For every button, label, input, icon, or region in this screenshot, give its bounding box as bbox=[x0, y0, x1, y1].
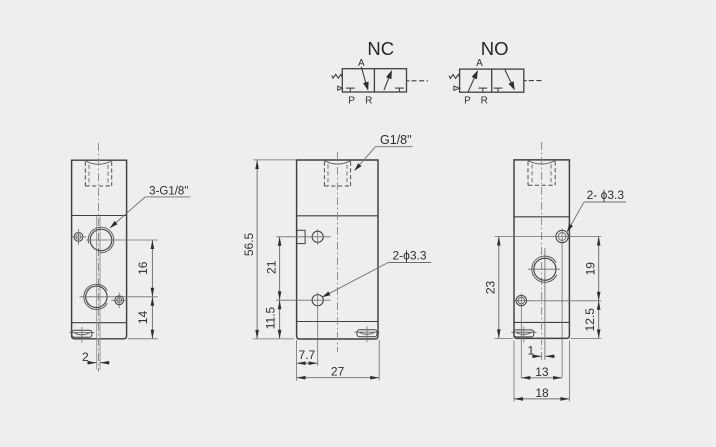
left view top section divider bbox=[72, 215, 127, 217]
dimension 1 arrows bbox=[532, 355, 542, 357]
svg-text:1: 1 bbox=[528, 343, 535, 357]
svg-text:23: 23 bbox=[484, 281, 498, 295]
svg-text:R: R bbox=[365, 95, 372, 106]
right view hole droplines for dim 13 bbox=[520, 308, 522, 378]
middle view body outline bbox=[297, 160, 378, 339]
left view bottom plate divider bbox=[72, 322, 127, 324]
svg-text:3-G1/8": 3-G1/8" bbox=[149, 185, 188, 197]
svg-text:P: P bbox=[464, 95, 471, 106]
left view port P center extension line bbox=[80, 296, 158, 298]
middle view upper mounting hole bbox=[312, 231, 323, 242]
left view mounting hole bottom bbox=[115, 296, 124, 305]
right view port R circle bbox=[534, 258, 556, 280]
right view threaded top port hidden lines bbox=[528, 161, 555, 164]
NO blocked port P symbol right cell bbox=[494, 87, 503, 89]
svg-text:2- ϕ3.3: 2- ϕ3.3 bbox=[587, 188, 625, 202]
NO pilot triangle bbox=[454, 86, 460, 90]
NC right cell flow path arrow bbox=[384, 75, 390, 90]
svg-text:A: A bbox=[476, 58, 483, 69]
NC actuator dashed line bbox=[407, 80, 410, 82]
right view manual slot bbox=[514, 330, 534, 337]
NO right cell flow path arrow bbox=[505, 70, 513, 87]
middle view bottom plate divider bbox=[297, 321, 378, 323]
middle view threaded top port hidden lines bbox=[324, 161, 350, 164]
dimension 7.7 bbox=[296, 340, 298, 381]
right view vertical centerline bbox=[541, 142, 543, 360]
right view mounting hole left extension line bbox=[527, 300, 601, 302]
middle view side tab square bbox=[297, 230, 306, 243]
label G1/8 leader bbox=[376, 146, 413, 148]
dimension 11.5 bbox=[279, 300, 281, 339]
dimension 12.5 bbox=[598, 301, 600, 339]
left view mounting hole top bbox=[74, 233, 83, 242]
label 3-G1/8 leader bbox=[145, 196, 190, 198]
left view vertical centerline bbox=[98, 143, 100, 372]
left view slot projection lines bbox=[96, 216, 98, 370]
dimension 23 bbox=[498, 237, 500, 339]
svg-text:7.7: 7.7 bbox=[299, 348, 316, 362]
svg-text:13: 13 bbox=[535, 365, 549, 379]
dimension 2 arrows bbox=[87, 362, 97, 364]
NO blocked port R symbol left cell bbox=[478, 87, 487, 89]
left view port P circle bbox=[86, 286, 107, 307]
svg-text:18: 18 bbox=[535, 386, 549, 400]
NC blocked port P symbol bbox=[346, 87, 355, 89]
left view body outline bbox=[72, 160, 127, 339]
right view mounting hole top bbox=[556, 230, 568, 242]
svg-text:P: P bbox=[348, 95, 355, 106]
svg-text:14: 14 bbox=[136, 311, 150, 325]
left view threaded top port hidden lines bbox=[85, 161, 111, 164]
NC return spring bbox=[332, 74, 343, 78]
NC pilot triangle bbox=[338, 86, 343, 90]
middle view top section divider bbox=[297, 215, 378, 217]
svg-text:G1/8": G1/8" bbox=[380, 133, 412, 147]
svg-text:2-ϕ3.3: 2-ϕ3.3 bbox=[392, 248, 426, 262]
dimension 21 bbox=[279, 237, 281, 300]
label 2-phi3.3 leader bbox=[388, 262, 431, 264]
right view body outline bbox=[514, 160, 569, 339]
left view port A circle bbox=[90, 229, 112, 251]
NO actuator dashed line bbox=[524, 80, 527, 82]
valve symbol NO body box bbox=[460, 69, 524, 92]
middle view vertical centerline bbox=[337, 152, 339, 352]
left view manual slot bbox=[72, 330, 92, 337]
svg-text:19: 19 bbox=[584, 262, 598, 276]
left view port A center extension line bbox=[86, 239, 158, 241]
dimension 19 bbox=[598, 237, 600, 301]
dimension 14 bbox=[151, 297, 153, 339]
NO return spring bbox=[449, 75, 460, 79]
svg-text:NC: NC bbox=[367, 38, 394, 59]
svg-text:56.5: 56.5 bbox=[242, 232, 256, 256]
right view top section divider bbox=[514, 216, 569, 218]
dimension 56.5 bbox=[256, 160, 258, 339]
right view port R offset line bbox=[544, 248, 546, 360]
right view mounting hole left bbox=[516, 295, 526, 305]
svg-text:27: 27 bbox=[331, 365, 345, 379]
dimension 27 bbox=[378, 340, 380, 380]
NC left cell flow path A to R bbox=[361, 67, 367, 88]
svg-text:NO: NO bbox=[481, 38, 509, 59]
middle view manual slot bbox=[357, 330, 377, 337]
right view mounting hole top extension line bbox=[495, 236, 602, 238]
svg-text:11.5: 11.5 bbox=[264, 306, 278, 329]
svg-text:12.5: 12.5 bbox=[583, 308, 597, 332]
label 2-phi3.3 right leader bbox=[584, 201, 626, 203]
dimension 13 bbox=[521, 377, 562, 379]
svg-text:R: R bbox=[481, 95, 488, 106]
svg-text:21: 21 bbox=[264, 260, 278, 274]
svg-text:16: 16 bbox=[136, 261, 150, 275]
svg-text:2: 2 bbox=[82, 350, 89, 364]
NO left cell flow path P to A bbox=[468, 74, 476, 92]
dimension 18 bbox=[513, 341, 515, 402]
dimension 14 bottom extension bbox=[128, 338, 158, 340]
dimension 16 bbox=[151, 240, 153, 297]
valve symbol NC body box bbox=[342, 69, 406, 92]
NC blocked port R symbol right cell bbox=[395, 87, 404, 89]
right view bottom plate divider bbox=[514, 321, 569, 323]
middle view lower mounting hole bbox=[312, 295, 323, 306]
